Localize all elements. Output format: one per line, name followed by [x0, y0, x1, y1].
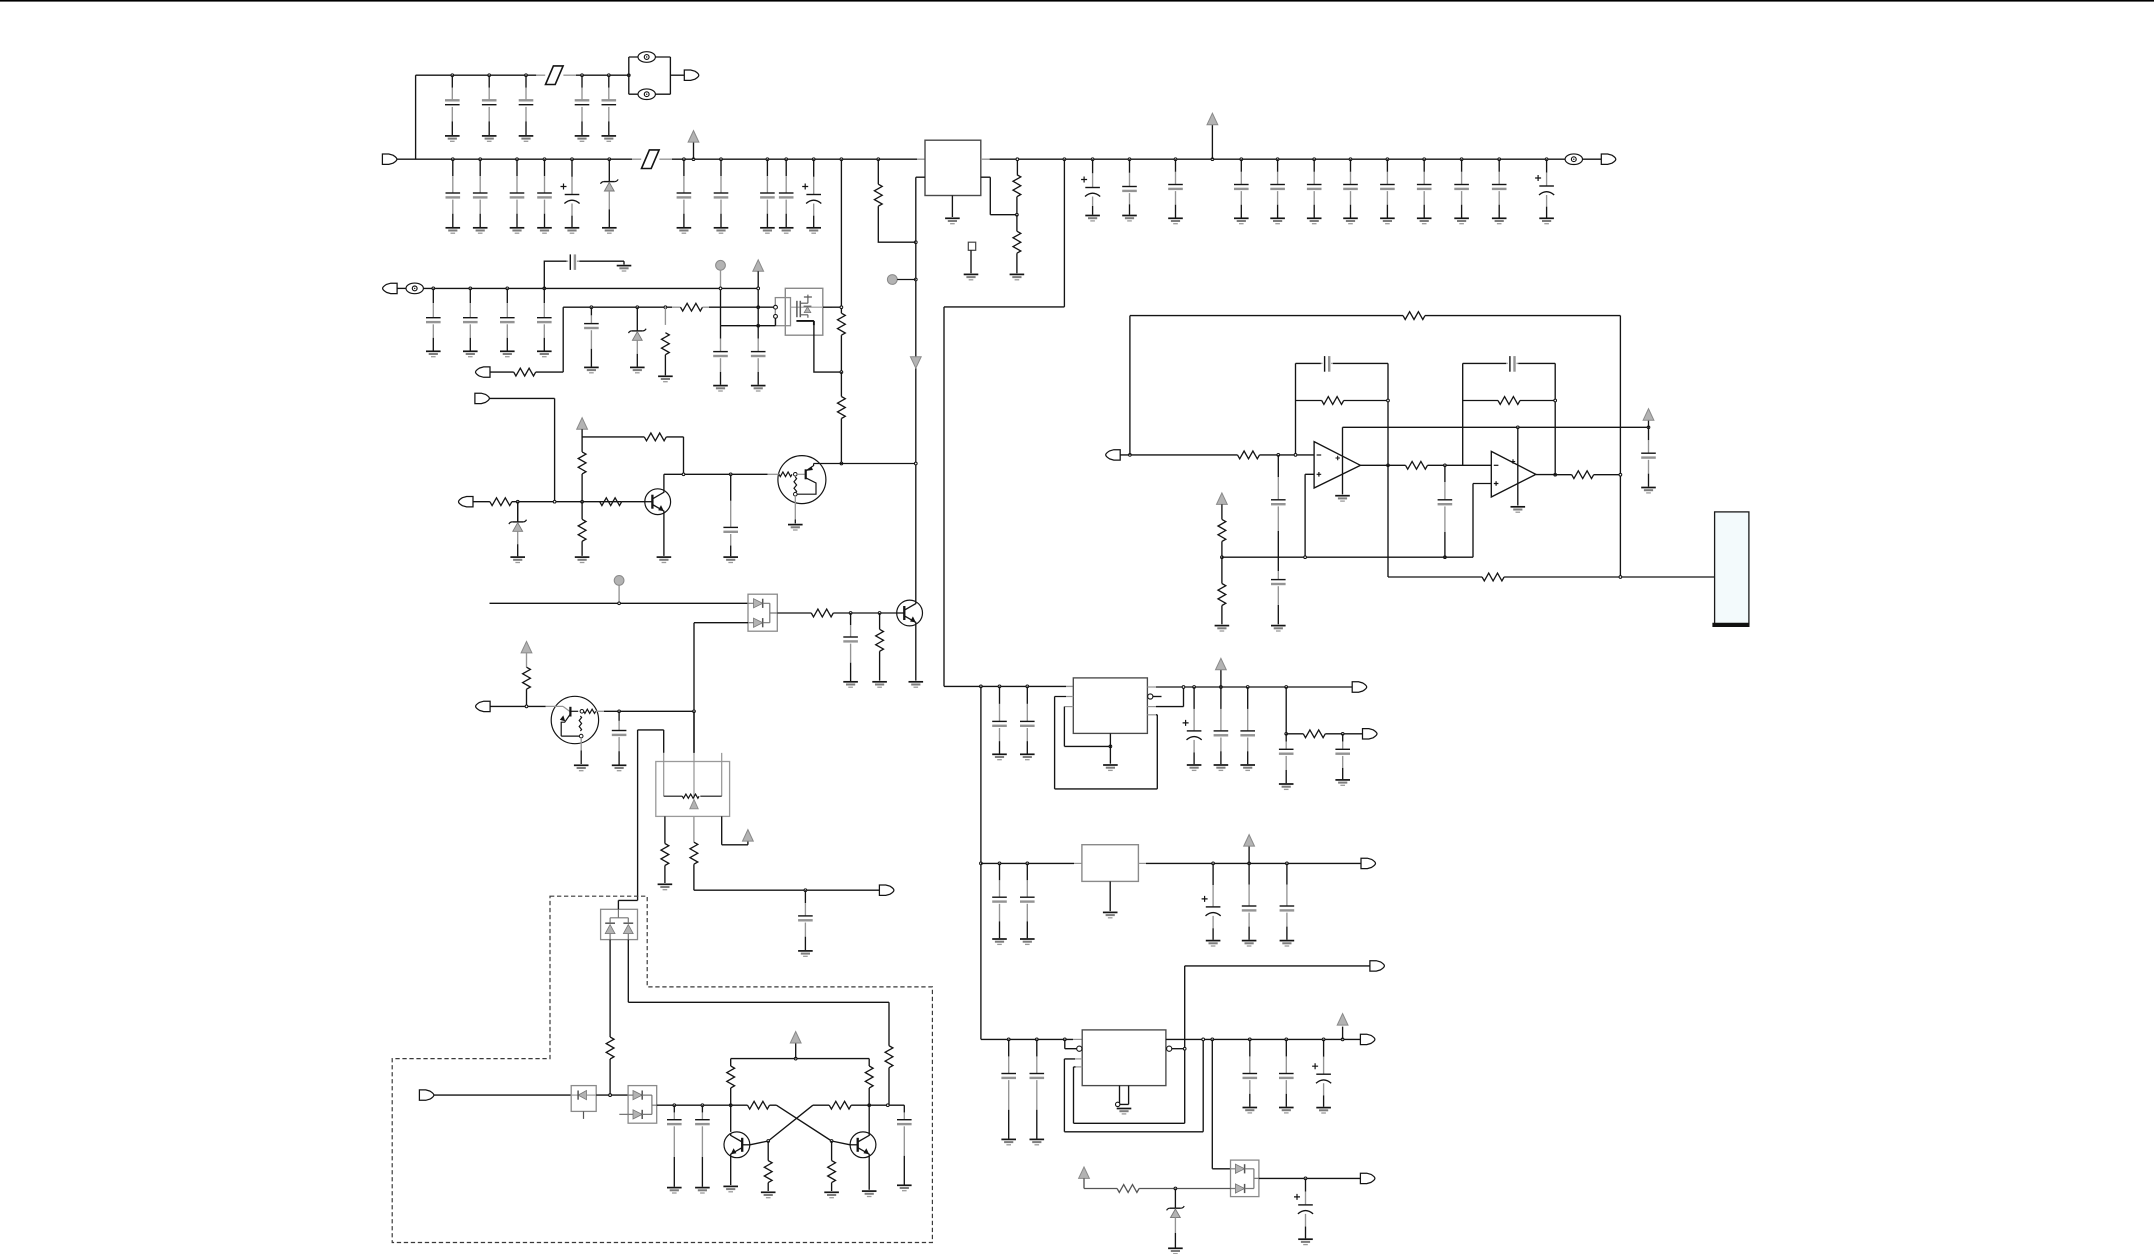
junction [1554, 399, 1557, 402]
capacitor Cx1027 [1020, 686, 1035, 753]
ground [658, 376, 673, 381]
MOSFET Q1 package [785, 288, 823, 335]
wire bead lead [632, 158, 641, 160]
resistor R36 [828, 1161, 836, 1183]
wire U1 stub in [917, 158, 925, 160]
wire [1064, 706, 1073, 708]
junction [868, 1104, 871, 1107]
capacitor C36 [723, 474, 738, 556]
port P17 vbackup [1360, 1173, 1375, 1183]
ground [992, 754, 1007, 759]
wire [623, 261, 625, 264]
junction [1026, 685, 1029, 688]
junction [516, 500, 519, 503]
junction [701, 1104, 704, 1107]
transistor Q6 [724, 1132, 750, 1158]
ground [897, 1185, 912, 1190]
wire [664, 473, 768, 475]
ground [1010, 274, 1025, 279]
junction [840, 306, 843, 309]
junction [1221, 556, 1224, 559]
diode D8b [1235, 1184, 1244, 1193]
resistor R11 [644, 433, 666, 441]
trimpot RV1 internals [664, 762, 722, 809]
junction [1240, 158, 1243, 161]
wire [544, 261, 566, 288]
ground [1641, 488, 1656, 493]
port P15 feedback out [1370, 961, 1385, 971]
junction [849, 612, 852, 615]
wire [757, 271, 759, 325]
wire [579, 260, 624, 262]
wire [1342, 427, 1344, 494]
ground [677, 228, 692, 233]
ground [658, 884, 673, 889]
capacitor Cx999 [992, 686, 1007, 753]
wire [610, 909, 628, 939]
capacitor C45 [1214, 687, 1229, 764]
capacitor C1 [445, 75, 460, 135]
wire [1259, 1177, 1361, 1179]
ground [565, 228, 580, 233]
junction [608, 158, 611, 161]
port P16 vout3 [1360, 1034, 1375, 1044]
capacitor C41 inter-stage [1438, 465, 1453, 557]
capacitor Cy1027 [1020, 863, 1035, 938]
wire wiper out [694, 864, 880, 890]
wire fuse bottom leg [629, 93, 671, 95]
wire [981, 177, 1017, 215]
wire [664, 753, 722, 762]
wire [434, 1094, 572, 1096]
junction [682, 473, 685, 476]
capacitor C25 [1454, 159, 1469, 217]
TVS diode D6 [571, 1086, 596, 1112]
transistor Q2 [645, 489, 671, 515]
junction [1498, 158, 1501, 161]
ground [1001, 1139, 1016, 1144]
wire EN stub [1153, 696, 1162, 698]
ground [1335, 780, 1350, 785]
junction [1276, 158, 1279, 161]
IC U4 buck regulator [1073, 678, 1147, 734]
resistor R32 [865, 1066, 873, 1088]
ground [1117, 1109, 1132, 1114]
resistor R2 [1013, 231, 1021, 253]
junction [1285, 732, 1288, 735]
transistor Q3 digital PNP [768, 456, 826, 524]
MOSFET Q1 internals [791, 295, 833, 318]
wire [720, 288, 722, 325]
wire [489, 398, 554, 501]
port P4 battery in [383, 283, 398, 293]
capacitor C13 [760, 159, 775, 227]
capacitor C24 [1417, 159, 1432, 217]
diode package D7 [628, 1086, 657, 1124]
junction power flag [794, 1057, 797, 1060]
wire [851, 1104, 904, 1106]
junction [1182, 686, 1185, 689]
junction [1444, 556, 1447, 559]
ground [473, 228, 488, 233]
ground [1298, 1239, 1313, 1244]
junction [1387, 399, 1390, 402]
wire [944, 159, 1064, 686]
junction [618, 710, 621, 713]
wire [1109, 881, 1111, 911]
junction [720, 158, 723, 161]
wire [1221, 504, 1223, 519]
pin circle U4 EN [1148, 694, 1153, 699]
pin circle 2 [774, 315, 778, 319]
wire [619, 1095, 656, 1114]
resistor R19 [1406, 461, 1428, 469]
wire [604, 710, 694, 712]
junction [1174, 158, 1177, 161]
junction [581, 74, 584, 77]
fuse F4 polyfuse [406, 283, 423, 294]
body diode of Q1 [804, 307, 811, 313]
wire U4 stub [1066, 685, 1073, 687]
junction [1286, 862, 1289, 865]
IC U5 LDO [1082, 845, 1139, 882]
ground [1214, 765, 1229, 770]
capacitor C38 chain upper [1271, 455, 1286, 557]
capacitor C9 [537, 159, 552, 227]
wire [1360, 464, 1405, 466]
junction [1619, 473, 1622, 476]
junction [1212, 862, 1215, 865]
junction [914, 462, 917, 465]
wire stub [1076, 1066, 1083, 1068]
capacitor C30 [500, 288, 515, 350]
wire [748, 603, 777, 622]
fuse F2 [638, 89, 655, 100]
power flag 3V3 [1216, 658, 1227, 670]
port P3 VCC out [1601, 154, 1616, 164]
wire [730, 1156, 732, 1185]
ground [617, 266, 632, 271]
wire [916, 176, 925, 178]
resistor R5 gate [681, 303, 703, 311]
wire [980, 686, 982, 1039]
junction [729, 473, 732, 476]
wire [1130, 316, 1621, 577]
ground [1335, 496, 1350, 501]
wire riser to upper rail [415, 75, 417, 159]
junction [719, 287, 722, 290]
wire output rail 1 [1156, 686, 1352, 688]
power flag VC1 [577, 418, 588, 430]
junction [1386, 158, 1389, 161]
wire [775, 319, 777, 326]
junction [840, 462, 843, 465]
junction [451, 74, 454, 77]
fuse F3 [1565, 154, 1582, 165]
power flag VT [521, 641, 532, 653]
junction [1007, 1038, 1010, 1041]
junction [553, 500, 556, 503]
top border line [0, 0, 2154, 2]
gate driver Q-package [775, 298, 790, 326]
ferrite bead FB2 [642, 150, 660, 169]
transistor Q4 [897, 600, 923, 626]
wire [1221, 541, 1223, 557]
resistor R22 feedback [1498, 397, 1520, 405]
resistor R4 [662, 333, 670, 355]
wire [622, 501, 645, 503]
junction [1063, 1038, 1066, 1041]
ground [1539, 218, 1554, 223]
wire [1286, 733, 1303, 735]
IC U1 DC-DC converter [925, 140, 981, 195]
junction [785, 158, 788, 161]
junction [1202, 1038, 1205, 1041]
wire bead lead [536, 74, 545, 76]
ground [798, 951, 813, 956]
wire [730, 1059, 732, 1066]
resistor R3 [874, 184, 882, 206]
wire bead lead [659, 158, 672, 160]
transistor Q5 digital NPN [546, 696, 599, 764]
junction [1647, 426, 1650, 429]
capacitor C35 [584, 307, 599, 366]
power flag 1V8 [1244, 835, 1255, 847]
wire [693, 711, 695, 753]
diode D7a [633, 1091, 642, 1100]
port P10 filtered 3V3 [1363, 729, 1378, 739]
ground [1234, 218, 1249, 223]
wire [693, 623, 695, 753]
diode D4b [754, 618, 763, 627]
junction power flag [1220, 686, 1223, 689]
junction [766, 158, 769, 161]
wire U5 stub [1074, 862, 1082, 864]
wire [1212, 1039, 1230, 1168]
ground [779, 228, 794, 233]
capacitor Cy999 [992, 863, 1007, 938]
wire [1285, 687, 1287, 734]
ground [1343, 218, 1358, 223]
ferrite bead FB1 [546, 66, 564, 85]
junction [1322, 1038, 1325, 1041]
wire [694, 622, 748, 624]
resistor R6 [838, 313, 846, 335]
port P6 control in [475, 393, 490, 403]
ground [1380, 218, 1395, 223]
junction [506, 287, 509, 290]
ground [964, 274, 979, 279]
wire base line [512, 501, 622, 503]
wire [536, 371, 564, 373]
wire [1594, 474, 1621, 476]
wire [814, 463, 916, 465]
wire [1325, 733, 1362, 735]
wire [1120, 1086, 1129, 1105]
junction [1016, 213, 1019, 216]
capacitor C23 [1380, 159, 1395, 217]
port P8 signal in [1106, 450, 1121, 460]
op-amp U2 [1314, 442, 1360, 488]
resistor R14 [811, 609, 833, 617]
junction [1516, 426, 1519, 429]
junction [543, 158, 546, 161]
ground [843, 682, 858, 687]
port P11 1V8 out [1361, 858, 1376, 868]
junction [1545, 158, 1548, 161]
wire [1222, 484, 1491, 558]
wire [721, 325, 776, 327]
ground [1454, 218, 1469, 223]
power flag VT2 [743, 830, 754, 842]
junction [1183, 1047, 1186, 1050]
wire [397, 287, 406, 289]
capacitor C57 electrolytic [1312, 1039, 1331, 1106]
junction [767, 1140, 770, 1143]
resistor R26 [523, 667, 531, 689]
zener diode D9 [1167, 1189, 1185, 1248]
junction [627, 74, 630, 77]
capacitor C39 chain lower [1271, 557, 1286, 624]
junction [729, 1104, 732, 1107]
wire U6 stub [1073, 1038, 1082, 1040]
wire [877, 159, 879, 184]
pin circle 1 [774, 305, 778, 309]
ground [1020, 754, 1035, 759]
junction [877, 158, 880, 161]
junction [914, 241, 917, 244]
IC U6 regulator [1082, 1030, 1166, 1086]
capacitor C22 [1343, 159, 1358, 217]
junction [1341, 732, 1344, 735]
junction [1294, 454, 1297, 457]
wire [868, 1105, 870, 1133]
ground [1270, 218, 1285, 223]
junction [840, 158, 843, 161]
ground [909, 682, 924, 687]
port P14 trigger in [419, 1090, 434, 1100]
capacitor C37 [843, 613, 858, 681]
junction [432, 287, 435, 290]
ground [992, 939, 1007, 944]
wire to output port [1583, 158, 1602, 160]
resistor R8 [514, 368, 536, 376]
capacitor C11 [677, 159, 692, 227]
wire [814, 325, 842, 372]
wire [663, 474, 665, 490]
ground [1020, 939, 1035, 944]
junction [1285, 1038, 1288, 1041]
wire [1172, 1048, 1185, 1050]
capacitor C49 electrolytic [1202, 863, 1221, 939]
wire [831, 1183, 833, 1191]
resistor R15 [876, 629, 884, 651]
wire [767, 1141, 769, 1161]
wire [1305, 474, 1314, 557]
junction [590, 306, 593, 309]
wire [664, 307, 666, 325]
junction [830, 1140, 833, 1143]
wire [596, 1094, 628, 1096]
junction [525, 74, 528, 77]
wire [1120, 454, 1237, 456]
resistor R33 base left [748, 1101, 770, 1109]
wire [563, 306, 672, 308]
wire [840, 419, 842, 464]
zener diode D2 [629, 307, 647, 366]
resistor R31 [727, 1066, 735, 1088]
capacitor C47 [1279, 734, 1294, 783]
ground [482, 136, 497, 141]
capacitor C40 feedback [1321, 356, 1333, 372]
capacitor C8 [510, 159, 525, 227]
resistor R7 [838, 397, 846, 419]
port P5 enable [476, 367, 491, 377]
wire [1016, 159, 1018, 175]
capacitor C16 electrolytic [1081, 159, 1100, 215]
capacitor C48 [1335, 734, 1350, 779]
junction [1128, 158, 1131, 161]
wire [1517, 427, 1519, 505]
wire [1147, 706, 1156, 708]
wire [840, 159, 842, 313]
junction [804, 889, 807, 892]
resistor R25 [1303, 730, 1325, 738]
junction [469, 287, 472, 290]
ground [1279, 784, 1294, 789]
wire [1156, 687, 1184, 707]
wire [1066, 696, 1073, 698]
capacitor C12 [714, 159, 729, 227]
ground [602, 228, 617, 233]
wire outer loop [1055, 697, 1158, 789]
wire [473, 501, 490, 503]
capacitor C10 electrolytic [561, 159, 580, 227]
capacitor C53 [798, 890, 813, 950]
junction [479, 158, 482, 161]
capacitor Cw1249 [1243, 1039, 1258, 1106]
junction [1248, 1038, 1251, 1041]
capacitor C5 [602, 75, 617, 135]
junction [571, 158, 574, 161]
junction [886, 1104, 889, 1107]
junction [1304, 1177, 1307, 1180]
ground [1168, 218, 1183, 223]
ground [1316, 1108, 1331, 1113]
power flag VOSC2 [1079, 1167, 1090, 1179]
port P12 adj in [476, 701, 491, 711]
wire [1648, 420, 1650, 427]
ground [612, 765, 627, 770]
capacitor Cw1286 [1279, 1039, 1294, 1106]
ground [695, 1188, 710, 1193]
ground [872, 682, 887, 687]
junction [1285, 686, 1288, 689]
ground [667, 1188, 682, 1193]
wire power flag stem [1211, 125, 1213, 159]
wire stub [1075, 1058, 1082, 1060]
wire [915, 624, 917, 680]
ground [751, 386, 766, 391]
diode D4a [754, 599, 763, 608]
junction [757, 287, 760, 290]
dashed boundary isolated section [392, 896, 932, 1242]
resistor R16 loop [1403, 312, 1425, 320]
wire power flag stem [1342, 1027, 1344, 1040]
port P13 vset out [879, 885, 894, 895]
wire to port [670, 74, 684, 76]
wire [1343, 426, 1649, 428]
